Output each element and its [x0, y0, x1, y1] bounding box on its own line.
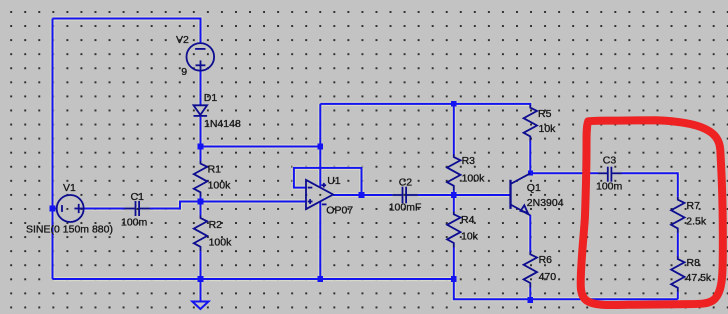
junction node C (R3/R4/C2/base) [451, 192, 457, 198]
wire D1 cathode to node A [200, 117, 202, 147]
wire opamp V- to ground rail [319, 202, 321, 279]
wire R8 bottom to lower rail [677, 292, 679, 299]
wire V1 left pin to rail junction [53, 208, 58, 210]
wire C3 to R7 [622, 173, 678, 197]
op-amp U1 [306, 180, 333, 209]
junction R3 top [451, 101, 457, 107]
svg-text:9: 9 [181, 66, 187, 78]
resistor R8 [671, 256, 684, 292]
wire R2 bottom to ground rail [200, 251, 202, 279]
wire node C to Q1 base [454, 194, 511, 196]
resistor R2 [194, 215, 207, 251]
junction rail jog [451, 276, 457, 282]
junction collector node (R5/C3) [528, 171, 533, 176]
capacitor C3 [598, 167, 622, 182]
junction V1 left [50, 206, 56, 212]
wire top supply rail to R3 and R5 [320, 104, 530, 105]
svg-text:1N4148: 1N4148 [204, 118, 241, 130]
wire node A down to R1 [200, 147, 202, 162]
svg-text:V2: V2 [176, 34, 189, 46]
svg-text:2N3904: 2N3904 [527, 197, 564, 209]
wire opamp output to C2 [333, 194, 392, 196]
wire ground stub below R2 [200, 279, 202, 302]
wire C1 to node B jog [150, 202, 201, 209]
wire opamp V+ column [319, 104, 321, 187]
wire emitter to R6 [529, 215, 531, 252]
capacitor C2 [392, 187, 418, 204]
wire feedback loop [294, 168, 362, 195]
resistor R4 [447, 212, 460, 248]
svg-text:V1: V1 [63, 182, 76, 194]
wire node B to opamp plus input [201, 201, 307, 203]
wire R4 bottom to rail [453, 247, 455, 279]
resistor R6 [524, 252, 537, 288]
junction node A (D1/R1) [198, 144, 204, 150]
wire R5 bottom to collector node [529, 141, 531, 174]
svg-text:2.5k: 2.5k [686, 215, 707, 227]
junction opamp output [359, 192, 365, 198]
wire top from left rail to V2 [53, 19, 201, 44]
wire node A to opamp supply column [201, 146, 321, 148]
svg-text:OP07: OP07 [326, 205, 353, 217]
resistor R3 [447, 154, 460, 190]
svg-text:C3: C3 [603, 154, 617, 166]
svg-text:100mF: 100mF [389, 202, 422, 214]
wire R3 bottom to node C [453, 190, 455, 195]
junction node B (R1/R2/C1) [198, 199, 204, 205]
voltage source V2 [187, 43, 215, 71]
annotation red loop [581, 120, 723, 305]
svg-text:10k: 10k [461, 231, 479, 243]
svg-text:Q1: Q1 [527, 182, 541, 194]
svg-text:100m: 100m [121, 217, 148, 229]
svg-text:R4: R4 [461, 214, 475, 226]
junction R2 ground [198, 276, 204, 282]
wire halo layer (jpeg-like fringe) [53, 19, 678, 302]
svg-text:C2: C2 [399, 177, 413, 189]
diode D1 [194, 105, 208, 116]
wire R6 bottom to lower rail [529, 287, 531, 299]
svg-text:R5: R5 [538, 108, 552, 120]
svg-text:100k: 100k [209, 237, 233, 249]
wire collector node to C3 [530, 172, 598, 174]
junction opamp V- ground [318, 276, 324, 282]
junction R6 lower rail [528, 297, 534, 303]
resistor R5 [524, 105, 537, 141]
resistor R7 [671, 197, 684, 233]
junction supply column top of opamp [318, 144, 324, 150]
ground [192, 302, 208, 310]
svg-text:100m: 100m [596, 180, 623, 192]
svg-text:U1: U1 [327, 175, 341, 187]
svg-text:47.5k: 47.5k [686, 272, 712, 284]
wire R7 to R8 [677, 233, 679, 257]
wire R3 top lead [453, 104, 455, 155]
svg-text:C1: C1 [131, 191, 145, 203]
transistor Q1 [511, 173, 531, 215]
svg-text:R2: R2 [209, 219, 223, 231]
capacitor C1 [125, 201, 151, 216]
svg-text:D1: D1 [204, 92, 218, 104]
wire R1 bottom to node B [200, 197, 202, 202]
svg-text:470: 470 [539, 271, 557, 283]
svg-text:R7: R7 [687, 200, 701, 212]
svg-text:100k: 100k [462, 173, 486, 185]
svg-text:10k: 10k [539, 123, 557, 135]
svg-text:R1: R1 [208, 163, 222, 175]
svg-text:R3: R3 [462, 155, 476, 167]
wire node B to R2 [200, 202, 202, 216]
resistor R1 [194, 161, 207, 197]
svg-text:R6: R6 [539, 254, 553, 266]
wire V1 to C1 [84, 208, 125, 210]
wire node C to R4 [453, 195, 455, 212]
wire left vertical rail [52, 19, 54, 280]
wire C2 to node C [418, 194, 454, 196]
wire V2 to D1 [200, 71, 202, 106]
wire bottom ground rail [53, 278, 454, 280]
svg-text:SINE(0 150m 880): SINE(0 150m 880) [26, 224, 113, 236]
wire rail jog down [454, 279, 678, 299]
svg-text:R8: R8 [687, 257, 701, 269]
svg-text:100k: 100k [208, 179, 232, 191]
voltage source V1 [57, 195, 84, 222]
